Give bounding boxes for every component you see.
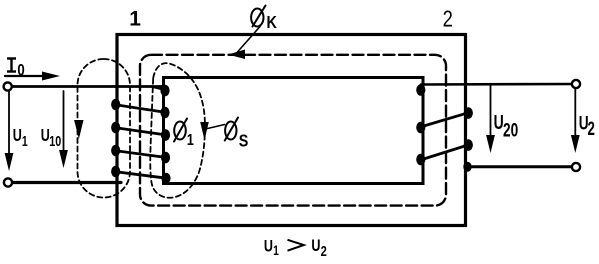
flux arrow on right leakage oval [200, 122, 209, 140]
transformer core window (inner outline) [164, 78, 424, 184]
svg-text:2: 2 [443, 6, 453, 31]
subscript K of PhiK [267, 13, 278, 33]
subscript S of PhiS [239, 131, 249, 151]
svg-text:2: 2 [321, 242, 327, 259]
flux path PhiS left leakage oval (dashed) [78, 59, 131, 198]
svg-text:1: 1 [273, 242, 279, 258]
leader line from PhiK label to arrow [237, 27, 260, 53]
wire: bottom-right from secondary winding to terminal [466, 165, 576, 168]
label I0 with underline [7, 58, 16, 72]
svg-text:0: 0 [17, 61, 24, 80]
caption U1 > U2 [264, 237, 279, 259]
svg-text:1: 1 [129, 8, 141, 31]
svg-text:U: U [41, 126, 50, 146]
svg-text:U: U [494, 110, 504, 133]
transformer core outer outline [117, 35, 466, 226]
flux path PhiK (dashed loop in core) [140, 55, 446, 206]
wire: top-right from secondary winding to terminal [421, 83, 576, 86]
subscript 1 of Phi1 [187, 132, 194, 150]
terminal top-left [4, 82, 12, 90]
label U20 [494, 110, 519, 141]
phi glyph of PhiS label [225, 118, 238, 141]
voltage arrow U1 [8, 91, 10, 156]
secondary winding diagonals [422, 113, 468, 127]
phi glyph of Phi1 label [174, 119, 187, 142]
svg-text:2: 2 [587, 119, 594, 140]
svg-text:1: 1 [22, 133, 28, 149]
phi glyph of PhiK label [251, 6, 265, 27]
svg-text:S: S [239, 131, 249, 151]
label U1 [13, 126, 28, 149]
terminal bottom-left [4, 178, 12, 186]
label U2 [579, 112, 595, 140]
wire: top-left from terminal to primary winding [11, 85, 163, 88]
svg-text:K: K [267, 13, 278, 33]
voltage arrow U10 [63, 91, 65, 153]
flux arrow on left leakage oval [74, 120, 83, 139]
terminal top-right [572, 80, 580, 88]
secondary winding left bulges [416, 84, 425, 165]
svg-text:U: U [13, 126, 22, 146]
svg-text:U: U [264, 237, 273, 256]
wire: bottom-left from terminal to primary winding [12, 181, 121, 184]
leader line from PhiS label to arrow [208, 125, 225, 129]
current arrow I0 [5, 75, 52, 77]
primary winding right bulges [160, 85, 170, 184]
primary winding left bulges [111, 99, 120, 178]
flux path PhiS right leakage oval (dashed) [150, 63, 205, 198]
secondary winding right bulges [463, 107, 473, 172]
svg-text:20: 20 [503, 119, 518, 141]
svg-text:10: 10 [49, 132, 61, 149]
voltage arrow U2 [574, 89, 576, 138]
terminal bottom-right [572, 163, 580, 171]
label 2 (secondary side) [443, 6, 453, 31]
primary winding turn wires [152, 87, 164, 90]
label U10 [41, 126, 61, 150]
voltage arrow U20 [490, 85, 492, 138]
svg-text:1: 1 [187, 132, 194, 150]
flux arrow on PhiK top segment [228, 50, 245, 60]
svg-text:U: U [311, 236, 320, 255]
